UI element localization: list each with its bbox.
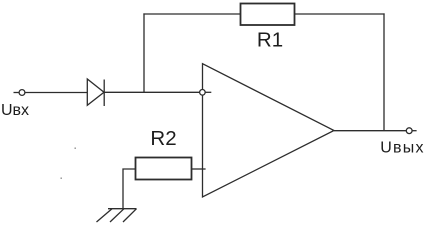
label Uvyx <box>380 140 424 157</box>
resistor R2 body <box>136 158 192 180</box>
label Uvx <box>1 102 29 119</box>
wire R1 right lead to feedback right leg <box>295 13 385 15</box>
wire stub inside op-amp inverting input <box>205 91 211 93</box>
ground horizontal bar <box>108 208 137 210</box>
op-amp U1 triangle <box>203 64 335 197</box>
ground hatch stroke 3 <box>123 209 137 222</box>
wire feedback left vertical leg <box>143 13 145 92</box>
ground hatch stroke 1 <box>97 209 113 222</box>
node circle at op-amp inverting input <box>200 90 206 96</box>
resistor R1 body <box>241 4 295 26</box>
label R2 <box>150 127 176 150</box>
svg-text:Uвх: Uвх <box>1 102 29 119</box>
svg-text:R2: R2 <box>150 127 176 150</box>
diode VD triangle (anode) <box>87 79 104 105</box>
wire feedback right vertical leg <box>383 13 385 130</box>
wire top feedback to R1 left lead <box>143 13 240 15</box>
output terminal stub wire <box>412 130 416 132</box>
wire op-amp output to output terminal <box>334 130 406 132</box>
speck artifact 2 <box>61 178 62 179</box>
diode VD cathode bar <box>103 80 105 107</box>
input terminal stub wire <box>14 92 19 94</box>
label R1 <box>257 28 283 51</box>
wire R2 right lead to op-amp <box>192 168 206 170</box>
wire diode cathode to inverting input node <box>104 91 200 93</box>
speck artifact 1 <box>75 148 76 149</box>
output terminal circle (node Uvyx) <box>406 128 412 134</box>
ground hatch stroke 2 <box>110 209 124 222</box>
svg-text:R1: R1 <box>257 28 283 51</box>
svg-text:Uвых: Uвых <box>380 140 424 157</box>
wire input terminal to diode anode <box>25 92 87 94</box>
input terminal circle (node Uvx) <box>19 90 25 96</box>
wire R2 left lead down to ground <box>123 169 136 209</box>
